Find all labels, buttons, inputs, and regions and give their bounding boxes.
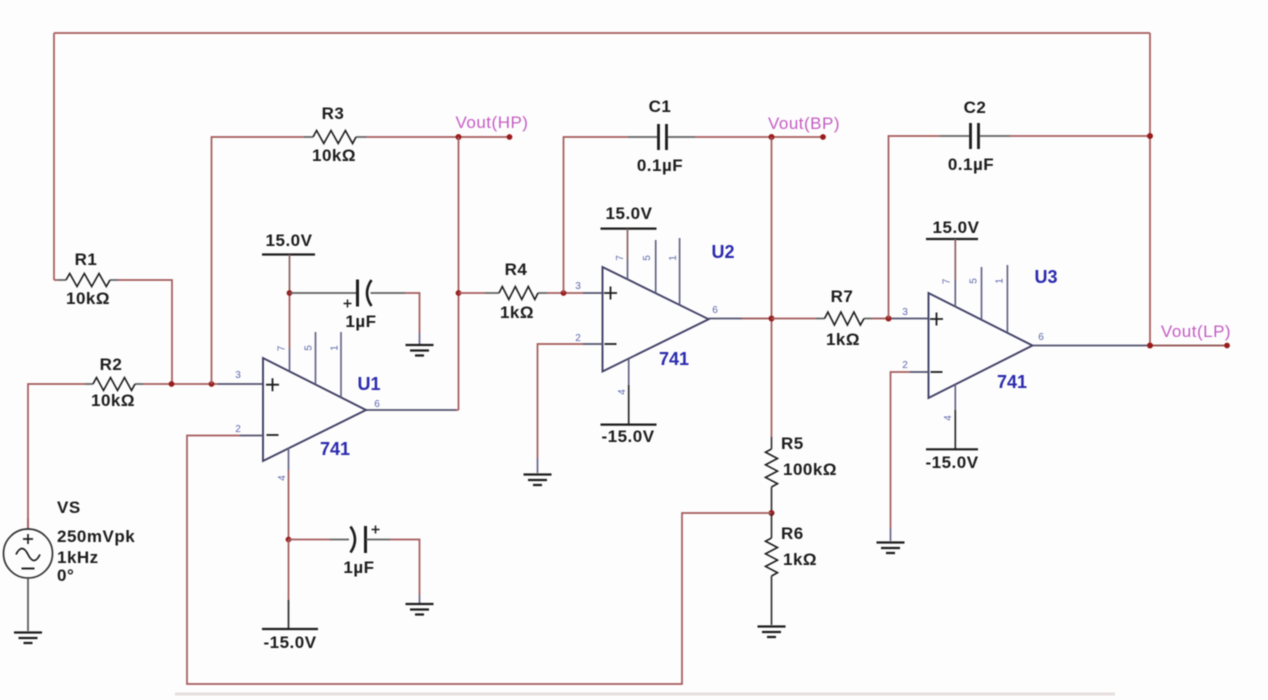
svg-text:3: 3 [902, 307, 908, 318]
svg-text:U2: U2 [711, 242, 734, 262]
node: R5/R6 junction dot [769, 510, 775, 516]
node: U2 output junction dot [769, 316, 775, 322]
svg-text:7: 7 [615, 255, 626, 261]
svg-text:741: 741 [659, 349, 689, 369]
power -15V supply U3 [925, 384, 978, 472]
resistor R1 [54, 250, 118, 308]
svg-text:7: 7 [277, 345, 288, 351]
capacitor 1uF (top bypass, polarized) [290, 280, 420, 345]
svg-text:C2: C2 [964, 98, 987, 117]
wire: U1 pin 4 down to -15V [288, 447, 290, 470]
svg-text:VS: VS [57, 498, 81, 517]
svg-text:5: 5 [642, 255, 653, 261]
ground (bottom bypass cap) [406, 604, 434, 615]
svg-text:R1: R1 [75, 250, 98, 269]
svg-text:1µF: 1µF [343, 558, 374, 577]
wire: VS up to R2 row [28, 384, 85, 529]
wire: R1 output down to input node [118, 280, 172, 384]
svg-text:15.0V: 15.0V [606, 204, 653, 223]
node: pin4 / bypass cap junction dot [286, 537, 292, 543]
ground (U3 pin 2) [877, 543, 905, 554]
svg-text:1kHz: 1kHz [57, 548, 99, 567]
svg-text:6: 6 [1038, 332, 1044, 343]
svg-text:0°: 0° [57, 566, 74, 585]
power +15V supply U3 [926, 218, 980, 307]
ground (VS) [14, 633, 42, 644]
svg-text:15.0V: 15.0V [933, 218, 980, 237]
svg-text:1kΩ: 1kΩ [826, 330, 860, 349]
node: R7 / C2 junction dot [886, 316, 892, 322]
node: supply / bypass cap junction dot [287, 290, 293, 296]
node Vout(BP) [768, 114, 840, 140]
svg-text:6: 6 [374, 399, 380, 410]
svg-text:1kΩ: 1kΩ [500, 303, 534, 322]
wire: R3 to Vout(HP) node [366, 136, 459, 138]
node Vout(LP) [1147, 322, 1231, 349]
resistor R3 [304, 104, 366, 165]
svg-text:R3: R3 [322, 104, 345, 123]
svg-text:1: 1 [995, 278, 1006, 284]
wire: U1 output [366, 409, 456, 411]
svg-text:4: 4 [617, 389, 628, 395]
wire: U3 output to Vout(LP) [1033, 345, 1148, 347]
power +15V supply U2 [601, 204, 657, 280]
wire: Vout(HP) vertical down to U1 output [458, 137, 460, 410]
svg-text:3: 3 [575, 281, 581, 292]
wire: vertical from input node up to R3 row [212, 137, 305, 384]
wire: feedback from R5/R6 node to U1 pin 2 [187, 436, 772, 685]
svg-text:6: 6 [712, 305, 718, 316]
resistor R4 [459, 260, 603, 322]
svg-text:2: 2 [902, 360, 908, 371]
svg-text:1: 1 [668, 255, 679, 261]
node: R4 / C1 junction dot [561, 290, 567, 296]
op-amp U1 [235, 332, 380, 481]
svg-text:2: 2 [575, 333, 581, 344]
svg-text:1kΩ: 1kΩ [783, 550, 817, 569]
wire: U2 output to Vout(BP) vertical [709, 318, 742, 320]
svg-text:4: 4 [943, 415, 954, 421]
wire: U3 pin 2 to ground [891, 372, 929, 541]
ground (U2 pin 2) [524, 475, 552, 486]
ground (top bypass cap) [406, 345, 434, 356]
resistor R5 [766, 434, 837, 513]
wire: R2 to U1 pin 3 [143, 383, 218, 385]
power +15V supply U1 [262, 231, 315, 371]
op-amp U2 [575, 238, 734, 395]
node: input junction dot (R3 branch) [209, 381, 215, 387]
svg-text:Vout(LP): Vout(LP) [1161, 322, 1231, 341]
svg-text:R2: R2 [100, 355, 123, 374]
svg-text:Vout(BP): Vout(BP) [768, 114, 840, 133]
svg-text:R7: R7 [831, 287, 854, 306]
capacitor C2 [889, 98, 1151, 319]
node: input junction dot (R1/R2) [169, 381, 175, 387]
svg-text:U3: U3 [1034, 267, 1057, 287]
svg-text:0.1µF: 0.1µF [637, 156, 683, 175]
svg-text:3: 3 [235, 370, 241, 381]
svg-text:10kΩ: 10kΩ [312, 146, 356, 165]
svg-text:Vout(HP): Vout(HP) [456, 113, 529, 132]
ground (R6) [758, 627, 786, 638]
svg-text:5: 5 [304, 345, 315, 351]
op-amp U3 [902, 265, 1057, 421]
wire: top feedback rail [54, 32, 1150, 34]
svg-text:7: 7 [942, 278, 953, 284]
power -15V supply U2 [601, 359, 657, 446]
svg-text:741: 741 [997, 372, 1027, 392]
svg-text:5: 5 [969, 278, 980, 284]
svg-text:250mVpk: 250mVpk [57, 527, 135, 546]
capacitor C1 [564, 97, 772, 293]
svg-text:U1: U1 [357, 374, 380, 394]
node: C2 / output rail junction dot [1147, 133, 1153, 139]
resistor R2 [85, 355, 143, 410]
wire: left vertical drop from top rail to R1 [53, 33, 55, 280]
svg-text:R5: R5 [781, 434, 804, 453]
svg-text:10kΩ: 10kΩ [91, 391, 135, 410]
svg-text:R4: R4 [505, 260, 528, 279]
source VS [4, 498, 136, 631]
wire: Vout(BP) vertical down to R5 [771, 137, 773, 437]
node Vout(HP) [456, 113, 529, 140]
wire: U2 pin 2 to ground [538, 344, 603, 473]
capacitor 1uF (bottom bypass, polarized) [289, 526, 420, 604]
svg-text:4: 4 [277, 475, 288, 481]
svg-text:-15.0V: -15.0V [263, 633, 316, 652]
svg-text:100kΩ: 100kΩ [783, 460, 837, 479]
wire: right vertical drop from top rail to Vout(LP) node [1149, 33, 1151, 346]
svg-text:2: 2 [235, 424, 241, 435]
svg-text:1: 1 [330, 345, 341, 351]
power -15V supply U1 [262, 540, 318, 653]
svg-text:10kΩ: 10kΩ [66, 289, 110, 308]
svg-text:C1: C1 [649, 97, 672, 116]
svg-text:0.1µF: 0.1µF [948, 155, 994, 174]
faint bottom artifact line [175, 693, 1115, 696]
svg-text:R6: R6 [781, 524, 804, 543]
node: R4 tap junction dot [456, 290, 462, 296]
svg-text:-15.0V: -15.0V [925, 453, 978, 472]
resistor R7 [772, 287, 929, 349]
svg-text:-15.0V: -15.0V [601, 427, 654, 446]
svg-text:1µF: 1µF [345, 312, 376, 331]
svg-text:15.0V: 15.0V [266, 231, 313, 250]
resistor R6 [766, 513, 818, 625]
svg-text:741: 741 [320, 439, 350, 459]
